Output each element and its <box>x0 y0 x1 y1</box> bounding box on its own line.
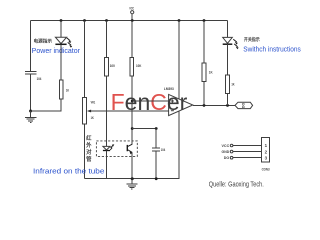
op-amp U1 LM393 <box>164 86 193 116</box>
label 电源指示 <box>34 38 53 45</box>
svg-text:管: 管 <box>86 155 92 163</box>
svg-text:3: 3 <box>265 155 268 160</box>
label Power indicator <box>32 48 81 55</box>
svg-text:10K: 10K <box>136 64 142 68</box>
wire U1 V+ <box>178 21 180 99</box>
connector CON3 <box>262 137 271 171</box>
node junction noninverting <box>131 100 134 103</box>
node junction bus-U1 <box>178 19 181 22</box>
wire D1 cathode to R1 <box>60 44 62 80</box>
label Quelle Gaoxing Tech <box>209 181 264 188</box>
ground GND bottom <box>127 179 138 189</box>
node junction bus-R2 <box>105 19 108 22</box>
pin 2 wire GND <box>222 149 262 154</box>
LED D2 switch indicator <box>223 37 239 49</box>
wire cap C2 top <box>155 129 157 149</box>
wire to U1 noninverting input <box>132 100 168 102</box>
wire phototransistor emitter <box>131 152 133 178</box>
watermark FenCer <box>111 89 188 115</box>
svg-text:DO: DO <box>224 155 229 160</box>
node junction output R4 <box>203 104 206 107</box>
svg-text:1K: 1K <box>209 70 213 74</box>
svg-text:VCC: VCC <box>129 6 134 10</box>
potentiometer VR1 <box>82 97 95 124</box>
wire cap link <box>132 128 156 130</box>
LED D1 power indicator <box>55 37 72 48</box>
svg-text:104: 104 <box>161 148 166 152</box>
svg-text:Infrared on the tube: Infrared on the tube <box>33 168 105 175</box>
wire left rail upper <box>30 21 32 72</box>
node junction left ground <box>29 110 32 113</box>
IR LED emitter diode <box>103 144 114 150</box>
resistor R2 100 <box>105 58 115 76</box>
svg-text:Power indicator: Power indicator <box>32 48 81 55</box>
svg-text:VCC: VCC <box>222 143 230 148</box>
wire VR1 top <box>84 21 86 98</box>
wire R3 to phototransistor <box>131 76 133 144</box>
label 开关指示 <box>244 36 260 43</box>
node junction bus-VCC <box>131 19 134 22</box>
node junction output D2 <box>226 104 229 107</box>
resistor R4 1K <box>202 63 213 81</box>
wire bottom rail <box>85 111 180 178</box>
pin 3 wire DO <box>224 155 262 160</box>
svg-text:Quelle: Gaoxing Tech.: Quelle: Gaoxing Tech. <box>209 181 264 188</box>
wire wiper to U1 inverting input <box>90 110 169 112</box>
svg-text:LM393: LM393 <box>164 86 174 91</box>
wire D2 anode <box>227 21 229 38</box>
wire U1 output <box>193 104 235 106</box>
svg-text:DO: DO <box>241 103 245 109</box>
svg-text:VR1: VR1 <box>91 100 96 104</box>
capacitor C2 104 <box>152 148 166 152</box>
svg-text:红: 红 <box>86 134 92 142</box>
svg-text:1K: 1K <box>231 82 234 86</box>
wire R2 to IR LED <box>106 76 108 146</box>
wire R1 to ground link <box>31 99 61 111</box>
label Infrared on the tube <box>33 168 105 175</box>
svg-text:104: 104 <box>37 77 42 81</box>
label Swithch instructions <box>243 47 301 54</box>
pin 1 wire VCC <box>222 143 262 148</box>
node junction bottom ground <box>131 177 134 180</box>
node junction cap link left <box>131 127 134 130</box>
wire left rail lower <box>30 74 32 111</box>
svg-text:100: 100 <box>110 64 115 68</box>
svg-text:Swithch instructions: Swithch instructions <box>243 47 301 54</box>
svg-text:GND: GND <box>222 149 230 154</box>
capacitor C1 104 <box>25 71 42 81</box>
wire D1 anode <box>60 21 62 38</box>
svg-text:电源指示: 电源指示 <box>34 38 53 45</box>
svg-text:2: 2 <box>265 149 268 154</box>
ground GND left <box>25 111 37 123</box>
svg-text:对: 对 <box>86 148 92 156</box>
node junction bus-D1 <box>60 19 63 22</box>
node junction bus-VR1 <box>83 19 86 22</box>
opto coupler dashed box <box>96 141 137 157</box>
resistor R5 1K <box>226 75 235 94</box>
wire cap C2 bottom <box>155 151 157 179</box>
phototransistor Q1 <box>127 144 132 154</box>
power port VCC <box>129 6 134 20</box>
svg-text:开关指示: 开关指示 <box>244 36 260 43</box>
resistor R3 10K <box>130 58 141 76</box>
svg-text:1: 1 <box>265 143 268 148</box>
wire VCC top bus <box>31 20 228 22</box>
node junction cap link right <box>155 127 158 130</box>
svg-text:外: 外 <box>86 141 92 149</box>
wire R2 top <box>106 21 108 58</box>
port DO out tag <box>235 102 253 108</box>
resistor R1 1K <box>59 80 69 99</box>
wire R4 bottom <box>203 81 205 105</box>
svg-text:CON3: CON3 <box>262 166 271 171</box>
svg-text:1K: 1K <box>66 89 69 93</box>
svg-text:1K: 1K <box>91 116 94 120</box>
wire R5 bottom <box>227 94 229 106</box>
wire IR LED cathode <box>106 151 108 179</box>
wire R4 top <box>203 21 205 64</box>
node junction bottom cap <box>155 177 158 180</box>
wire D2 cathode to R5 <box>227 44 229 75</box>
node junction bus-R4 <box>203 19 206 22</box>
label 红外对管 <box>86 134 92 163</box>
wire R3 top <box>131 21 133 58</box>
wire VR1 bottom <box>84 124 86 179</box>
